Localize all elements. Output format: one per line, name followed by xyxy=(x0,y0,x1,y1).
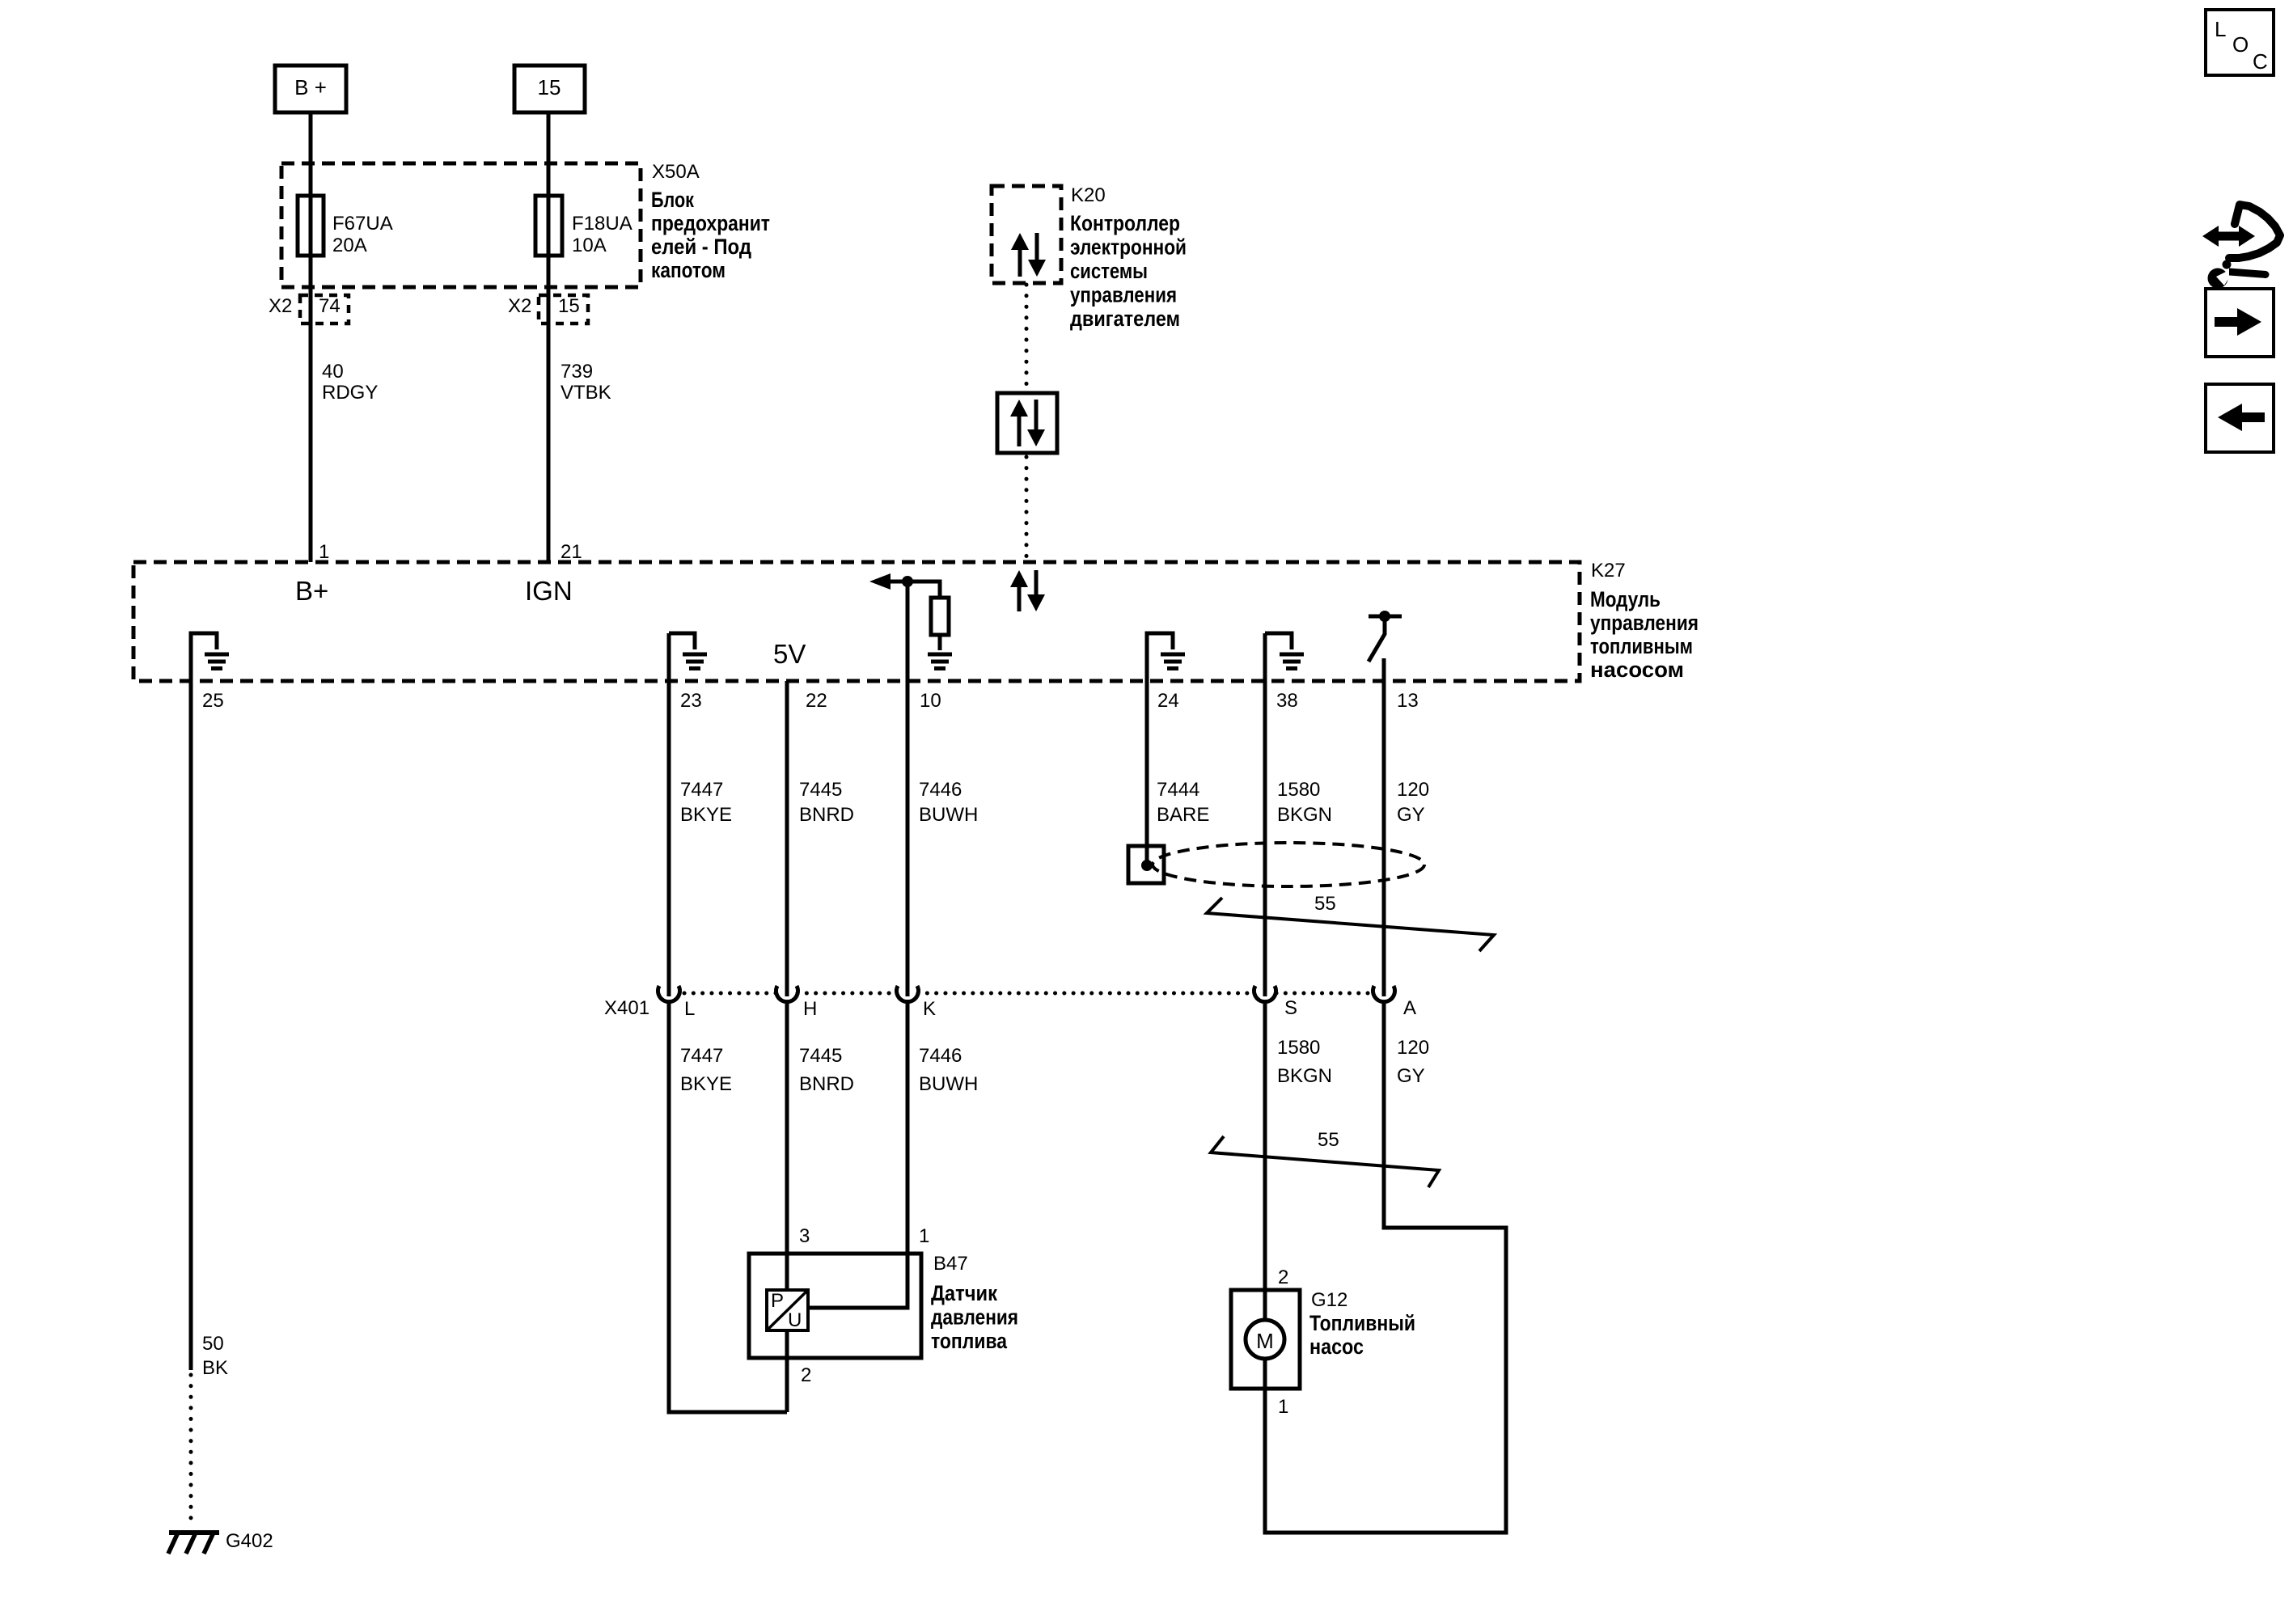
wire label 1580 BKGN lower xyxy=(1277,1037,1332,1087)
svg-text:7446: 7446 xyxy=(919,1045,962,1067)
X401 connector row xyxy=(604,986,1416,1020)
svg-text:22: 22 xyxy=(806,690,827,712)
svg-text:BKYE: BKYE xyxy=(680,804,732,826)
wire B47 pin2 stub xyxy=(785,1330,789,1412)
svg-text:K20: K20 xyxy=(1071,184,1106,206)
svg-text:X50A: X50A xyxy=(652,161,700,183)
svg-text:L: L xyxy=(684,998,695,1020)
left arrow box xyxy=(2206,384,2274,452)
connector arc S xyxy=(1254,986,1276,1002)
svg-text:X2: X2 xyxy=(269,295,292,317)
wire L to B47 pin2 xyxy=(669,1004,787,1412)
svg-text:BKYE: BKYE xyxy=(680,1073,732,1095)
svg-text:предохранит: предохранит xyxy=(651,211,770,235)
harness routing icon xyxy=(2202,205,2280,289)
fuse F18UA 10A xyxy=(535,196,632,256)
svg-text:15: 15 xyxy=(558,295,580,317)
svg-text:B +: B + xyxy=(294,75,327,99)
wire pin25 ground run 50 BK xyxy=(191,681,228,1529)
ground symbol pin 25 xyxy=(191,633,229,681)
wire H to B47 pin3 xyxy=(785,1004,789,1290)
svg-text:C: C xyxy=(2253,49,2268,74)
svg-text:2: 2 xyxy=(1278,1267,1288,1288)
svg-text:120: 120 xyxy=(1397,1037,1429,1059)
svg-text:2: 2 xyxy=(801,1364,811,1386)
svg-text:елей - Под: елей - Под xyxy=(651,235,751,259)
shield termination square xyxy=(1128,846,1164,883)
wire label 7445 BNRD upper xyxy=(799,779,854,826)
svg-text:давления: давления xyxy=(931,1305,1018,1330)
svg-text:X401: X401 xyxy=(604,997,649,1019)
fuel pump G12 xyxy=(1231,1267,1415,1418)
svg-text:7445: 7445 xyxy=(799,779,842,801)
svg-text:насос: насос xyxy=(1309,1334,1364,1359)
wire label 120 GY lower xyxy=(1397,1037,1429,1087)
svg-text:L: L xyxy=(2215,17,2226,41)
svg-text:F18UA: F18UA xyxy=(572,213,632,235)
serial data interface box xyxy=(997,393,1057,453)
svg-text:B+: B+ xyxy=(295,576,328,606)
K20 labels xyxy=(1070,184,1187,331)
shield dashed ellipse xyxy=(1153,843,1424,886)
K20 controller dashed box xyxy=(992,186,1061,283)
svg-text:G402: G402 xyxy=(226,1530,273,1552)
K27 internal up/down arrows xyxy=(1010,570,1045,611)
serial data dotted wire upper xyxy=(1025,285,1029,393)
fuel pressure sensor B47 xyxy=(749,1225,1018,1386)
connector X2 pin 74 xyxy=(269,295,349,324)
wire K to B47 pin1 xyxy=(808,1004,907,1308)
svg-text:U: U xyxy=(788,1309,802,1331)
svg-text:7444: 7444 xyxy=(1157,779,1199,801)
svg-text:1580: 1580 xyxy=(1277,779,1320,801)
svg-text:F67UA: F67UA xyxy=(332,213,393,235)
svg-text:3: 3 xyxy=(799,1225,810,1247)
svg-text:RDGY: RDGY xyxy=(322,382,378,404)
wire A to G12 pin1 loop xyxy=(1265,1004,1506,1533)
svg-text:20A: 20A xyxy=(332,235,367,256)
svg-text:7446: 7446 xyxy=(919,779,962,801)
svg-text:BUWH: BUWH xyxy=(919,804,978,826)
svg-text:GY: GY xyxy=(1397,804,1425,826)
wire 15 feed xyxy=(547,112,551,562)
svg-text:A: A xyxy=(1403,997,1416,1019)
wire label 120 GY upper xyxy=(1397,779,1429,826)
svg-text:23: 23 xyxy=(680,690,702,712)
svg-text:IGN: IGN xyxy=(525,576,573,606)
wire label 7447 BKYE upper xyxy=(680,779,732,826)
svg-text:BARE: BARE xyxy=(1157,804,1209,826)
connector X2 pin 15 xyxy=(508,295,588,324)
svg-text:BKGN: BKGN xyxy=(1277,1065,1332,1087)
svg-text:капотом: капотом xyxy=(651,258,726,282)
wire pin22 to X401 xyxy=(785,681,789,996)
connector arc H xyxy=(776,986,798,1002)
svg-text:GY: GY xyxy=(1397,1065,1425,1087)
svg-text:X2: X2 xyxy=(508,295,531,317)
terminal 15 xyxy=(514,66,585,112)
wire label 7444 BARE xyxy=(1157,779,1209,826)
svg-text:BUWH: BUWH xyxy=(919,1073,978,1095)
svg-text:1: 1 xyxy=(319,541,329,563)
wire B+ feed xyxy=(309,112,313,562)
svg-text:Контроллер: Контроллер xyxy=(1070,211,1180,235)
wire label 7446 BUWH lower xyxy=(919,1045,978,1095)
svg-text:K: K xyxy=(923,998,936,1020)
wire pin23 to X401 xyxy=(667,633,671,996)
svg-text:BK: BK xyxy=(202,1357,228,1379)
label X50A xyxy=(651,161,770,282)
svg-text:5V: 5V xyxy=(773,639,806,669)
svg-text:120: 120 xyxy=(1397,779,1429,801)
svg-text:BNRD: BNRD xyxy=(799,804,854,826)
svg-text:двигателем: двигателем xyxy=(1070,307,1180,331)
svg-text:Блок: Блок xyxy=(651,188,694,212)
wire label 7445 BNRD lower xyxy=(799,1045,854,1095)
svg-text:1: 1 xyxy=(1278,1396,1288,1418)
svg-text:Модуль: Модуль xyxy=(1590,587,1661,611)
wire label 40 RDGY xyxy=(322,361,378,404)
wire label 1580 BKGN upper xyxy=(1277,779,1332,826)
svg-text:55: 55 xyxy=(1314,893,1336,915)
ground symbol pin 24 xyxy=(1147,633,1185,681)
wire label 7446 BUWH upper xyxy=(919,779,978,826)
svg-text:BKGN: BKGN xyxy=(1277,804,1332,826)
svg-text:BNRD: BNRD xyxy=(799,1073,854,1095)
K27 fuel pump control module dashed box xyxy=(133,562,1580,681)
wire pin38 to X401 xyxy=(1263,633,1267,996)
svg-text:24: 24 xyxy=(1157,690,1179,712)
shield crossing 55 lower xyxy=(1211,1129,1439,1187)
svg-text:55: 55 xyxy=(1318,1129,1339,1151)
svg-text:10A: 10A xyxy=(572,235,607,256)
svg-text:управления: управления xyxy=(1070,283,1177,307)
svg-text:40: 40 xyxy=(322,361,344,383)
svg-text:38: 38 xyxy=(1276,690,1298,712)
svg-text:7445: 7445 xyxy=(799,1045,842,1067)
ground symbol pin 38 xyxy=(1265,633,1304,669)
svg-text:VTBK: VTBK xyxy=(561,382,611,404)
svg-text:13: 13 xyxy=(1397,690,1419,712)
fuse block X50A dashed box xyxy=(281,163,641,287)
terminal B+ xyxy=(275,66,346,112)
svg-text:топливным: топливным xyxy=(1590,634,1693,658)
svg-text:1580: 1580 xyxy=(1277,1037,1320,1059)
svg-text:7447: 7447 xyxy=(680,779,723,801)
wire label 7447 BKYE lower xyxy=(680,1045,732,1095)
wire pin13 to X401 xyxy=(1382,658,1386,996)
pull-up arrow and resistor at pin 10 xyxy=(869,573,952,669)
wire S to G12 pin2 xyxy=(1263,1004,1267,1320)
ground symbol pin 23 xyxy=(669,633,707,669)
svg-text:электронной: электронной xyxy=(1070,235,1187,260)
svg-text:74: 74 xyxy=(319,295,341,317)
K20 serial data arrows xyxy=(1011,233,1046,277)
shield crossing 55 upper xyxy=(1207,893,1494,951)
svg-text:O: O xyxy=(2232,32,2249,57)
svg-text:S: S xyxy=(1284,997,1297,1019)
wire label 739 VTBK xyxy=(561,361,611,404)
svg-text:топлива: топлива xyxy=(931,1329,1008,1353)
svg-text:B47: B47 xyxy=(933,1253,968,1275)
right arrow box xyxy=(2206,289,2274,357)
svg-text:50: 50 xyxy=(202,1333,224,1355)
wire pin24 to shield square xyxy=(1145,681,1149,862)
svg-text:системы: системы xyxy=(1070,259,1148,283)
svg-text:K27: K27 xyxy=(1591,560,1626,582)
connector arc K xyxy=(897,986,919,1002)
LOC legend box xyxy=(2206,10,2274,75)
svg-text:P: P xyxy=(771,1290,784,1312)
svg-text:7447: 7447 xyxy=(680,1045,723,1067)
svg-text:Топливный: Топливный xyxy=(1309,1311,1415,1335)
serial data dotted wire lower xyxy=(1025,457,1029,562)
svg-text:25: 25 xyxy=(202,690,224,712)
resistor R internal xyxy=(931,598,949,635)
wire pin10 to X401 xyxy=(906,582,910,996)
switch contact pin 13 xyxy=(1369,611,1402,662)
svg-text:управления: управления xyxy=(1590,611,1699,635)
svg-text:10: 10 xyxy=(920,690,941,712)
svg-text:G12: G12 xyxy=(1311,1289,1347,1311)
fuse F67UA 20A xyxy=(298,196,393,256)
svg-text:Датчик: Датчик xyxy=(931,1281,997,1305)
svg-text:M: M xyxy=(1256,1329,1274,1353)
svg-text:21: 21 xyxy=(561,541,582,563)
ground G402 xyxy=(168,1530,273,1554)
svg-text:1: 1 xyxy=(919,1225,929,1247)
K27 labels xyxy=(1590,560,1699,682)
svg-text:H: H xyxy=(803,998,817,1020)
connector arc A xyxy=(1373,986,1395,1002)
svg-text:15: 15 xyxy=(538,75,561,99)
svg-text:739: 739 xyxy=(561,361,593,383)
svg-text:насосом: насосом xyxy=(1590,658,1684,682)
connector arc L xyxy=(658,986,679,1002)
